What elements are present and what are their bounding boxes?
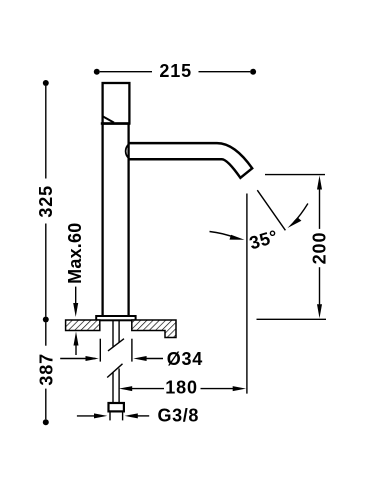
svg-text:Ø34: Ø34 [167, 349, 203, 369]
svg-text:325: 325 [36, 185, 56, 218]
svg-text:215: 215 [159, 61, 192, 81]
svg-text:180: 180 [165, 378, 198, 398]
svg-text:387: 387 [36, 353, 56, 386]
svg-text:Max.60: Max.60 [65, 223, 85, 284]
svg-text:200: 200 [310, 232, 330, 265]
svg-text:G3/8: G3/8 [158, 406, 199, 426]
